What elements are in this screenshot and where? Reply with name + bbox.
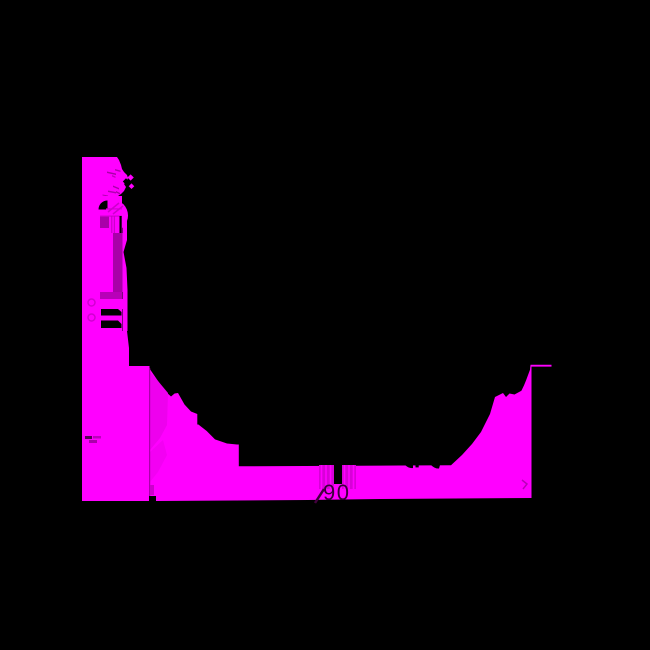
- crown slash 4: [113, 186, 119, 190]
- bright row above bars: [82, 299, 123, 309]
- circle pad fill: [94, 196, 122, 234]
- black diamond notch at beak tip: [123, 178, 129, 184]
- svg-text:90: 90: [323, 480, 350, 505]
- tiny text row 2: [89, 440, 97, 443]
- dark SW quadrant: [100, 216, 109, 228]
- faint shading chevron lower: [150, 440, 167, 482]
- crown slash 7: [103, 195, 109, 197]
- tick mark 1 on band top edge: [405, 465, 413, 468]
- magenta diamond SE: [129, 183, 135, 189]
- circle pad disc: [96, 200, 128, 232]
- black NW sector: [99, 201, 108, 210]
- slash mark left of text: [315, 489, 324, 503]
- small ring 1: [88, 299, 95, 306]
- tick mark 2 on band top edge: [431, 465, 440, 469]
- striped column left stripes: [322, 465, 331, 489]
- NE diagonal mark 1: [108, 203, 119, 212]
- faint shading column in bowl: [150, 372, 168, 450]
- black bar 1: [101, 309, 122, 316]
- thin black line right of circle: [120, 216, 122, 233]
- crown slash 6: [116, 191, 120, 195]
- main bottom bowl fill: [82, 331, 552, 501]
- crosshair thin line b: [114, 216, 115, 233]
- crown slash 1: [115, 169, 121, 172]
- striped column right: [342, 465, 356, 489]
- striped column right stripes: [345, 465, 354, 489]
- tiny text row 1 dark: [85, 436, 92, 439]
- dimension slot black: [334, 465, 342, 484]
- dark column below circle: [113, 233, 123, 292]
- small ring 2: [88, 314, 95, 321]
- thin dark vertical line at x150: [149, 368, 150, 501]
- magenta diamond NE: [127, 174, 133, 180]
- crown slash 5: [108, 191, 116, 194]
- NE diagonal mark 2: [113, 206, 123, 214]
- mid strip fill: [82, 309, 122, 366]
- crown slash 3: [112, 175, 116, 178]
- bright sliver right edge: [123, 216, 128, 331]
- left strip fill: [82, 157, 128, 196]
- crosshair thin line a: [111, 216, 112, 233]
- black bar 2: [101, 321, 122, 329]
- faint dotted mark above square: [150, 485, 154, 495]
- striped column left: [319, 465, 334, 489]
- medium transition band: [100, 292, 122, 299]
- tiny text row 1 light: [93, 436, 101, 439]
- small black square at bottom edge: [149, 496, 156, 501]
- tiny mark right side: [522, 480, 527, 489]
- tick mark 3 small: [416, 465, 419, 467]
- sector edge line h: [106, 208, 122, 209]
- sector edge line h2: [100, 216, 122, 217]
- crown slash 2: [107, 172, 116, 176]
